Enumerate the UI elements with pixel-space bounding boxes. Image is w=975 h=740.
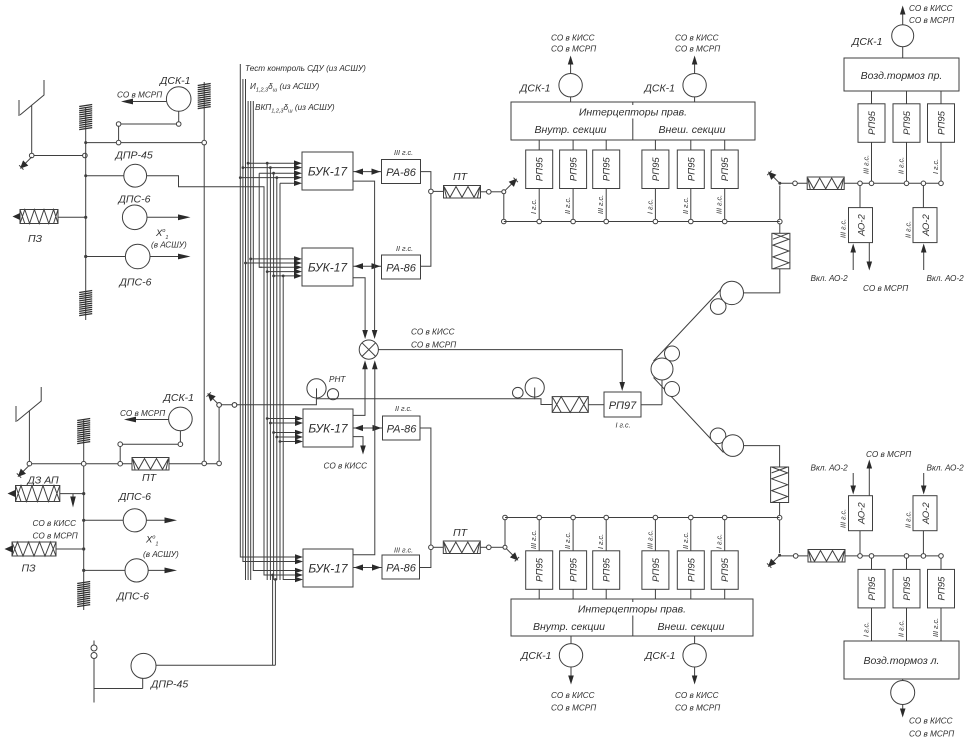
svg-text:III г.с.: III г.с. [596, 195, 605, 214]
svg-text:СО в КИСС: СО в КИСС [551, 34, 595, 43]
svg-text:СО в КИСС: СО в КИСС [909, 717, 953, 726]
anchor wedge of lever 2 [17, 465, 30, 478]
input Вкл. АО-2 (3) [811, 464, 857, 495]
svg-text:ДПС-6: ДПС-6 [119, 277, 152, 289]
svg-text:СО в МСРП: СО в МСРП [909, 16, 954, 25]
svg-text:СО в МСРП: СО в МСРП [117, 91, 162, 100]
sensor ДСК-1 (3) [519, 74, 582, 103]
wire: rail to ДПР-45 (1) [84, 174, 124, 177]
svg-text:СО в МСРП: СО в МСРП [551, 704, 596, 713]
svg-text:II г.с.: II г.с. [563, 532, 572, 549]
svg-text:ДПС-6: ДПС-6 [118, 491, 151, 503]
svg-text:Вкл. АО-2: Вкл. АО-2 [927, 274, 965, 283]
anchor wedge of lever 1 [19, 157, 32, 170]
wire: БУК-17 (1) - РА-86 (1) bidirectional link [353, 169, 382, 175]
input Вкл. АО-2 (4) [921, 464, 964, 495]
wire: ДСК-1 (1) link to rod [116, 111, 181, 140]
clutch switch at right interceptors bus (top) [502, 178, 518, 224]
svg-text:III г.с.: III г.с. [715, 195, 724, 214]
svg-text:Вкл. АО-2: Вкл. АО-2 [811, 274, 849, 283]
clutch switch at lever 2 rod [207, 392, 237, 461]
actuators РП95 (bottom right row of three) [858, 558, 955, 608]
sensor ДСК-1 (5) [520, 636, 583, 667]
output СО в МСРП from АО-2 (1) [863, 243, 908, 293]
sensor ДСК-1 (6) [644, 636, 706, 667]
svg-text:СО в МСРП: СО в МСРП [909, 730, 954, 739]
input Вкл. АО-2 (2) [921, 244, 964, 284]
svg-text:III г.с.: III г.с. [645, 530, 654, 549]
bus: air brake control run (bottom right) [780, 554, 944, 559]
svg-text:Вкл. АО-2: Вкл. АО-2 [927, 464, 965, 473]
air brake block: Возд.тормоз л. [844, 641, 959, 679]
wire: ПТ (3) to spring switch of right interceptors bus (bottom) [480, 545, 505, 550]
wire: ПТ (1) to spring switch of right interceptors bus [481, 190, 504, 195]
damper ДЗ АП [8, 475, 60, 502]
bus: right interceptors control run (bottom) [505, 515, 780, 520]
wire: lower pulley to air brake spring rod [744, 446, 780, 467]
svg-text:ПЗ: ПЗ [22, 563, 37, 575]
svg-text:СО в МСРП: СО в МСРП [551, 45, 596, 54]
right mechanical rail (interconnect) [203, 82, 205, 461]
svg-text:ДПР-45: ДПР-45 [150, 679, 188, 691]
controller БУК-17 (4) [303, 549, 353, 587]
wires: input taps to БУК-17 (1) [240, 160, 302, 186]
hatch block top of right rail [198, 84, 211, 109]
actuators РП95 (top right row of three) [858, 104, 955, 143]
arrow to СО в КИСС / СО в МСРП (ДСК-1 7) [900, 4, 954, 25]
svg-text:I г.с.: I г.с. [715, 534, 724, 549]
svg-text:РА-86: РА-86 [386, 563, 417, 575]
svg-text:СО в МСРП: СО в МСРП [863, 284, 908, 293]
lower wing pulley pair [710, 428, 743, 456]
hatch block top of rail 2 [77, 419, 90, 444]
wires: input taps to БУК-17 (3) [267, 416, 303, 445]
net: ВКП 1,2,3 δш (из АСШУ) [255, 103, 335, 115]
svg-text:ДПС-6: ДПС-6 [116, 591, 149, 603]
svg-text:СО в КИСС: СО в КИСС [909, 4, 953, 13]
input Вкл. АО-2 (1) [811, 244, 857, 284]
wire: cable run from clutch switch to РП97 input [217, 399, 552, 408]
clutch switch at bottom interceptors bus (left) [503, 515, 519, 561]
svg-text:СО в КИСС: СО в КИСС [33, 519, 77, 528]
svg-text:Внутр. секции: Внутр. секции [534, 124, 606, 136]
bus: right interceptors control run (top) [504, 219, 780, 224]
svg-text:II г.с.: II г.с. [681, 532, 690, 549]
sensor ДСК-1 (8) [891, 679, 915, 705]
controller БУК-17 (3) [303, 409, 353, 447]
wire: upper pulley to air brake spring rod [744, 269, 780, 293]
svg-text:СО в КИСС: СО в КИСС [551, 691, 595, 700]
wire: ДПР-45 (1) output to АСШУ bundle [147, 176, 276, 575]
wire: link to ДПР-45 (2) [94, 678, 143, 688]
labels СО в КИСС / СО в МСРП at mixer output [411, 328, 456, 350]
node at ПТ (1) takeoff [429, 189, 434, 194]
svg-text:III г.с.: III г.с. [529, 530, 538, 549]
sensor ДПС-6 (4) [116, 559, 149, 603]
wire: ДЗ АП to rail with КИСС/МСРП tap [33, 492, 86, 541]
svg-text:РА-86: РА-86 [386, 167, 417, 179]
svg-text:III г.с.: III г.с. [839, 219, 848, 238]
wire: to friction clutch ПТ (1) [433, 190, 443, 192]
control lever 2 (co-pilot) [16, 387, 41, 461]
wire: БУК-17 (4) output up to mixer [353, 360, 378, 555]
control lever 1 (pilot) [19, 80, 44, 153]
shutoff valve АО-2 (4) with label II г.с. [904, 496, 938, 554]
svg-text:III г.с.: III г.с. [839, 509, 848, 528]
svg-text:ПТ: ПТ [453, 171, 469, 183]
net: И 1,2,3 δш (из АСШУ) [250, 82, 320, 94]
svg-text:II г.с.: II г.с. [904, 221, 913, 238]
svg-text:I г.с.: I г.с. [596, 534, 605, 549]
servo РА-86 (1) with label III г.с. [382, 148, 421, 184]
output СО в МСРП from АО-2 (3) [866, 450, 911, 496]
arrow СО в МСРП from ДСК-1 (1) [117, 91, 166, 105]
svg-text:(в АСШУ): (в АСШУ) [151, 241, 187, 250]
bus: air brake control run (top right) [780, 181, 944, 186]
sensor ДСК-1 (1) [159, 75, 191, 111]
actuators РП95 (bottom center row of six) [526, 551, 739, 590]
central cable pulley cluster [651, 346, 680, 397]
shutoff valve АО-2 (2) with label II г.с. [904, 186, 938, 243]
svg-text:СО в МСРП: СО в МСРП [411, 341, 456, 350]
svg-text:ПЗ: ПЗ [28, 233, 43, 245]
label X1 to АСШУ (group 2) [143, 535, 179, 560]
wire: rail through ДПС-6 (4) with output arrow [82, 568, 177, 574]
svg-text:СО в МСРП: СО в МСРП [120, 409, 165, 418]
svg-text:РА-86: РА-86 [387, 424, 418, 436]
cable tension unit on bottom right bus [808, 550, 845, 563]
wire: lower spring rod to bottom bus [777, 503, 782, 554]
sensor ДПР-45 (1) [115, 150, 153, 188]
wire: ДПР-45 (2) output to АСШУ bundle [156, 575, 275, 665]
clutch switch at air brake bus (bottom right) [767, 554, 781, 568]
svg-text:Тест контроль СДУ (из АСШУ): Тест контроль СДУ (из АСШУ) [245, 64, 366, 73]
svg-text:БУК-17: БУК-17 [308, 562, 349, 576]
wire: tension unit to РП97 [588, 404, 604, 406]
svg-text:ПТ: ПТ [453, 527, 469, 539]
arrow to СО в КИСС / СО в МСРП (ДСК-1 8) [900, 705, 954, 739]
wire: rod of lever 1 (y=142.6) [84, 140, 206, 145]
svg-text:СО в КИСС: СО в КИСС [675, 34, 719, 43]
svg-text:СО в МСРП: СО в МСРП [675, 704, 720, 713]
clutch switch at air brake bus (top right) [767, 171, 781, 185]
push rod ПЗ (2) [5, 542, 57, 575]
cable drum РНТ [307, 375, 346, 400]
wire: rail through ДПС-6 (1) with output arrow [84, 214, 190, 220]
arrow to СО в КИСС / СО в МСРП (ДСК-1 4) [675, 34, 720, 74]
pivot node of lever 2 [27, 461, 32, 466]
svg-text:I г.с.: I г.с. [645, 199, 654, 214]
mixer (summing) unit [359, 340, 378, 359]
wire: spring rod to air brake bus [778, 186, 783, 234]
wires: bus to РП95 actuators (bottom row) with г.с. labels [529, 520, 725, 551]
svg-text:ДСК-1: ДСК-1 [519, 83, 551, 95]
wires: bus to РП95 actuators (top row) with г.с. labels [529, 188, 725, 220]
wire: rail through ДПС-6 (2) with output arrow [84, 254, 190, 260]
svg-text:Интерцепторы прав.: Интерцепторы прав. [579, 107, 687, 119]
hatch block bottom of rail 2 [77, 582, 90, 607]
svg-text:I г.с.: I г.с. [529, 199, 538, 214]
sensor ДПС-6 (1) [118, 194, 151, 230]
svg-text:II г.с.: II г.с. [396, 244, 413, 253]
push rod ПЗ (1) [13, 210, 59, 246]
cable tension unit before РП97 [552, 397, 588, 413]
svg-text:Внутр. секции: Внутр. секции [533, 621, 605, 633]
svg-text:(в АСШУ): (в АСШУ) [143, 550, 179, 559]
sensor ДСК-1 (4) [644, 74, 707, 103]
spring rod (lower right) [771, 467, 789, 503]
wire bundle: АСШУ vertical bus lines [239, 64, 286, 581]
wire: РП97 output to wing cable loop [641, 369, 662, 405]
svg-text:СО в КИСС: СО в КИСС [324, 462, 368, 471]
svg-text:СО в КИСС: СО в КИСС [411, 328, 455, 337]
wires: input taps to БУК-17 (2) [246, 256, 303, 279]
svg-text:Внеш. секции: Внеш. секции [659, 124, 726, 136]
svg-text:III г.с.: III г.с. [931, 618, 940, 637]
wire: БУК-17 (1) output down to mixer [353, 181, 377, 339]
controller БУК-17 (1) [302, 152, 353, 190]
wire: БУК-17 (2) - РА-86 (2) bidirectional link [353, 263, 382, 269]
wires: РП95 down to Возд.тормоз л. with г.с. labels [862, 608, 942, 641]
svg-text:ДСК-1: ДСК-1 [163, 392, 195, 404]
svg-text:III г.с.: III г.с. [862, 155, 871, 174]
hatch block bottom of left rail [79, 291, 92, 316]
rod-end link symbol [91, 641, 97, 703]
svg-text:Внеш. секции: Внеш. секции [658, 621, 725, 633]
svg-text:II г.с.: II г.с. [681, 197, 690, 214]
svg-text:ДСК-1: ДСК-1 [644, 83, 676, 95]
wire: to friction clutch ПТ (3) [433, 546, 443, 548]
svg-text:I г.с.: I г.с. [862, 622, 871, 637]
svg-text:II г.с.: II г.с. [395, 404, 412, 413]
arrow СО в МСРП from ДСК-1 (2) [120, 409, 168, 422]
label X1 to АСШУ [151, 228, 187, 250]
surfaces block: Интерцепторы прав. (Внутр./Внеш. секции) top [511, 102, 755, 140]
svg-text:РП97: РП97 [609, 400, 637, 412]
wire: РА-86 (3) and (4) outputs join [420, 428, 431, 568]
wire: lever 1 pivot to left rail [34, 153, 87, 158]
wire: ДСК-1 (2) link to rod [118, 431, 183, 462]
svg-text:Вкл. АО-2: Вкл. АО-2 [811, 464, 849, 473]
wire: rod of lever 2 (y=463.7) [32, 461, 222, 466]
wire: БУК-17 (3) - РА-86 (3) bidirectional link [353, 425, 383, 431]
svg-text:СО в МСРП: СО в МСРП [675, 45, 720, 54]
wire: mixer output to РП97 [378, 350, 625, 391]
svg-text:ДСК-1: ДСК-1 [851, 36, 883, 48]
wire: БУК-17 (2) output down to mixer [353, 278, 368, 339]
left mechanical rail (group 2) [83, 420, 85, 610]
air brake block: Возд.тормоз пр. [844, 58, 959, 91]
wires: РП95 down to bus with г.с. labels (top right) [862, 142, 942, 181]
servo РА-86 (4) with label III г.с. [382, 545, 420, 579]
svg-text:ДСК-1: ДСК-1 [644, 650, 676, 662]
svg-text:III г.с.: III г.с. [394, 545, 413, 554]
cable to upper right wing section [654, 287, 724, 362]
svg-text:Возд.тормоз пр.: Возд.тормоз пр. [861, 70, 943, 82]
wire: ПЗ (1) to rail [58, 216, 86, 218]
wire: БУК-17 (3) СО в КИСС output [324, 437, 368, 471]
wires: input taps to БУК-17 (4) [240, 554, 303, 582]
shutoff valve АО-2 (1) with label III г.с. [839, 186, 873, 243]
svg-text:II г.с.: II г.с. [897, 620, 906, 637]
arrow to СО в КИСС / СО в МСРП (ДСК-1 3) [551, 34, 596, 74]
svg-text:СО в МСРП: СО в МСРП [33, 532, 78, 541]
svg-text:БУК-17: БУК-17 [308, 261, 349, 275]
arrow to СО в КИСС / СО в МСРП (ДСК-1 5) [551, 667, 596, 713]
net: Тест контроль СДУ (из АСШУ) [245, 64, 366, 73]
sensor ДСК-1 (2) [163, 392, 195, 431]
servo РА-86 (3) with label II г.с. [383, 404, 421, 440]
svg-text:III г.с.: III г.с. [394, 148, 413, 157]
controller БУК-17 (2) [302, 248, 353, 286]
wire: БУК-17 (3) output up to mixer [353, 360, 368, 415]
svg-text:БУК-17: БУК-17 [308, 422, 349, 436]
wire: РА-86 (1) and (2) outputs join [421, 172, 431, 267]
spring rod (upper right) [772, 233, 790, 268]
svg-text:ДСК-1: ДСК-1 [159, 75, 191, 87]
friction clutch ПТ (1) [444, 171, 481, 198]
svg-text:II г.с.: II г.с. [897, 157, 906, 174]
friction clutch ПТ (2) [132, 458, 169, 485]
cable tension unit on top right bus [807, 177, 844, 190]
wire: ПЗ (2) to rail [56, 547, 85, 550]
svg-text:II г.с.: II г.с. [904, 511, 913, 528]
wires: Возд.тормоз пр. to РП95 actuators [872, 91, 942, 104]
sensor ДПС-6 (2) [119, 244, 152, 288]
svg-text:БУК-17: БУК-17 [308, 165, 349, 179]
svg-text:II г.с.: II г.с. [563, 197, 572, 214]
sensor ДСК-1 (7) [851, 25, 914, 58]
left mechanical rail (group 1) [85, 107, 87, 320]
svg-text:РА-86: РА-86 [386, 263, 417, 275]
wire: БУК-17 (4) - РА-86 (4) bidirectional link [353, 564, 382, 570]
cable pulley pair before РП97 [513, 378, 545, 399]
svg-text:Интерцепторы прав.: Интерцепторы прав. [578, 604, 686, 616]
drive РП97 with label I г.с. [604, 392, 641, 430]
svg-text:ПТ: ПТ [142, 472, 158, 484]
actuators РП95 (top center row of six) [526, 150, 739, 189]
surfaces block: Интерцепторы прав. (Внутр./Внеш. секции) bottom [511, 599, 753, 636]
svg-text:РНТ: РНТ [329, 375, 346, 384]
svg-text:СО в МСРП: СО в МСРП [866, 450, 911, 459]
upper wing pulley pair [710, 281, 743, 314]
wires: РП95 to right interceptors surfaces [539, 140, 725, 150]
svg-text:СО в КИСС: СО в КИСС [675, 691, 719, 700]
sensor ДПС-6 (3) [118, 491, 151, 532]
arrow to СО в КИСС / СО в МСРП (ДСК-1 6) [675, 667, 720, 713]
svg-text:ДПС-6: ДПС-6 [118, 194, 151, 206]
svg-text:ДСК-1: ДСК-1 [520, 650, 552, 662]
wires: РП95 to bottom interceptors surfaces [539, 589, 725, 599]
svg-text:I г.с.: I г.с. [931, 159, 940, 174]
pivot node of lever 1 [29, 153, 34, 158]
sensor ДПР-45 (2) [131, 653, 188, 690]
svg-text:I г.с.: I г.с. [616, 421, 631, 430]
friction clutch ПТ (3) [443, 527, 480, 554]
svg-text:ДПР-45: ДПР-45 [115, 150, 153, 162]
node at ПТ (3) takeoff [429, 545, 434, 550]
servo РА-86 (2) with label II г.с. [382, 244, 421, 279]
hatch block top of left rail [79, 105, 92, 130]
wire: rail through ДПС-6 (3) with output arrow [82, 517, 177, 523]
cable to lower right wing section [654, 378, 724, 453]
shutoff valve АО-2 (3) with label III г.с. [839, 496, 873, 554]
svg-text:Возд.тормоз л.: Возд.тормоз л. [864, 655, 940, 667]
